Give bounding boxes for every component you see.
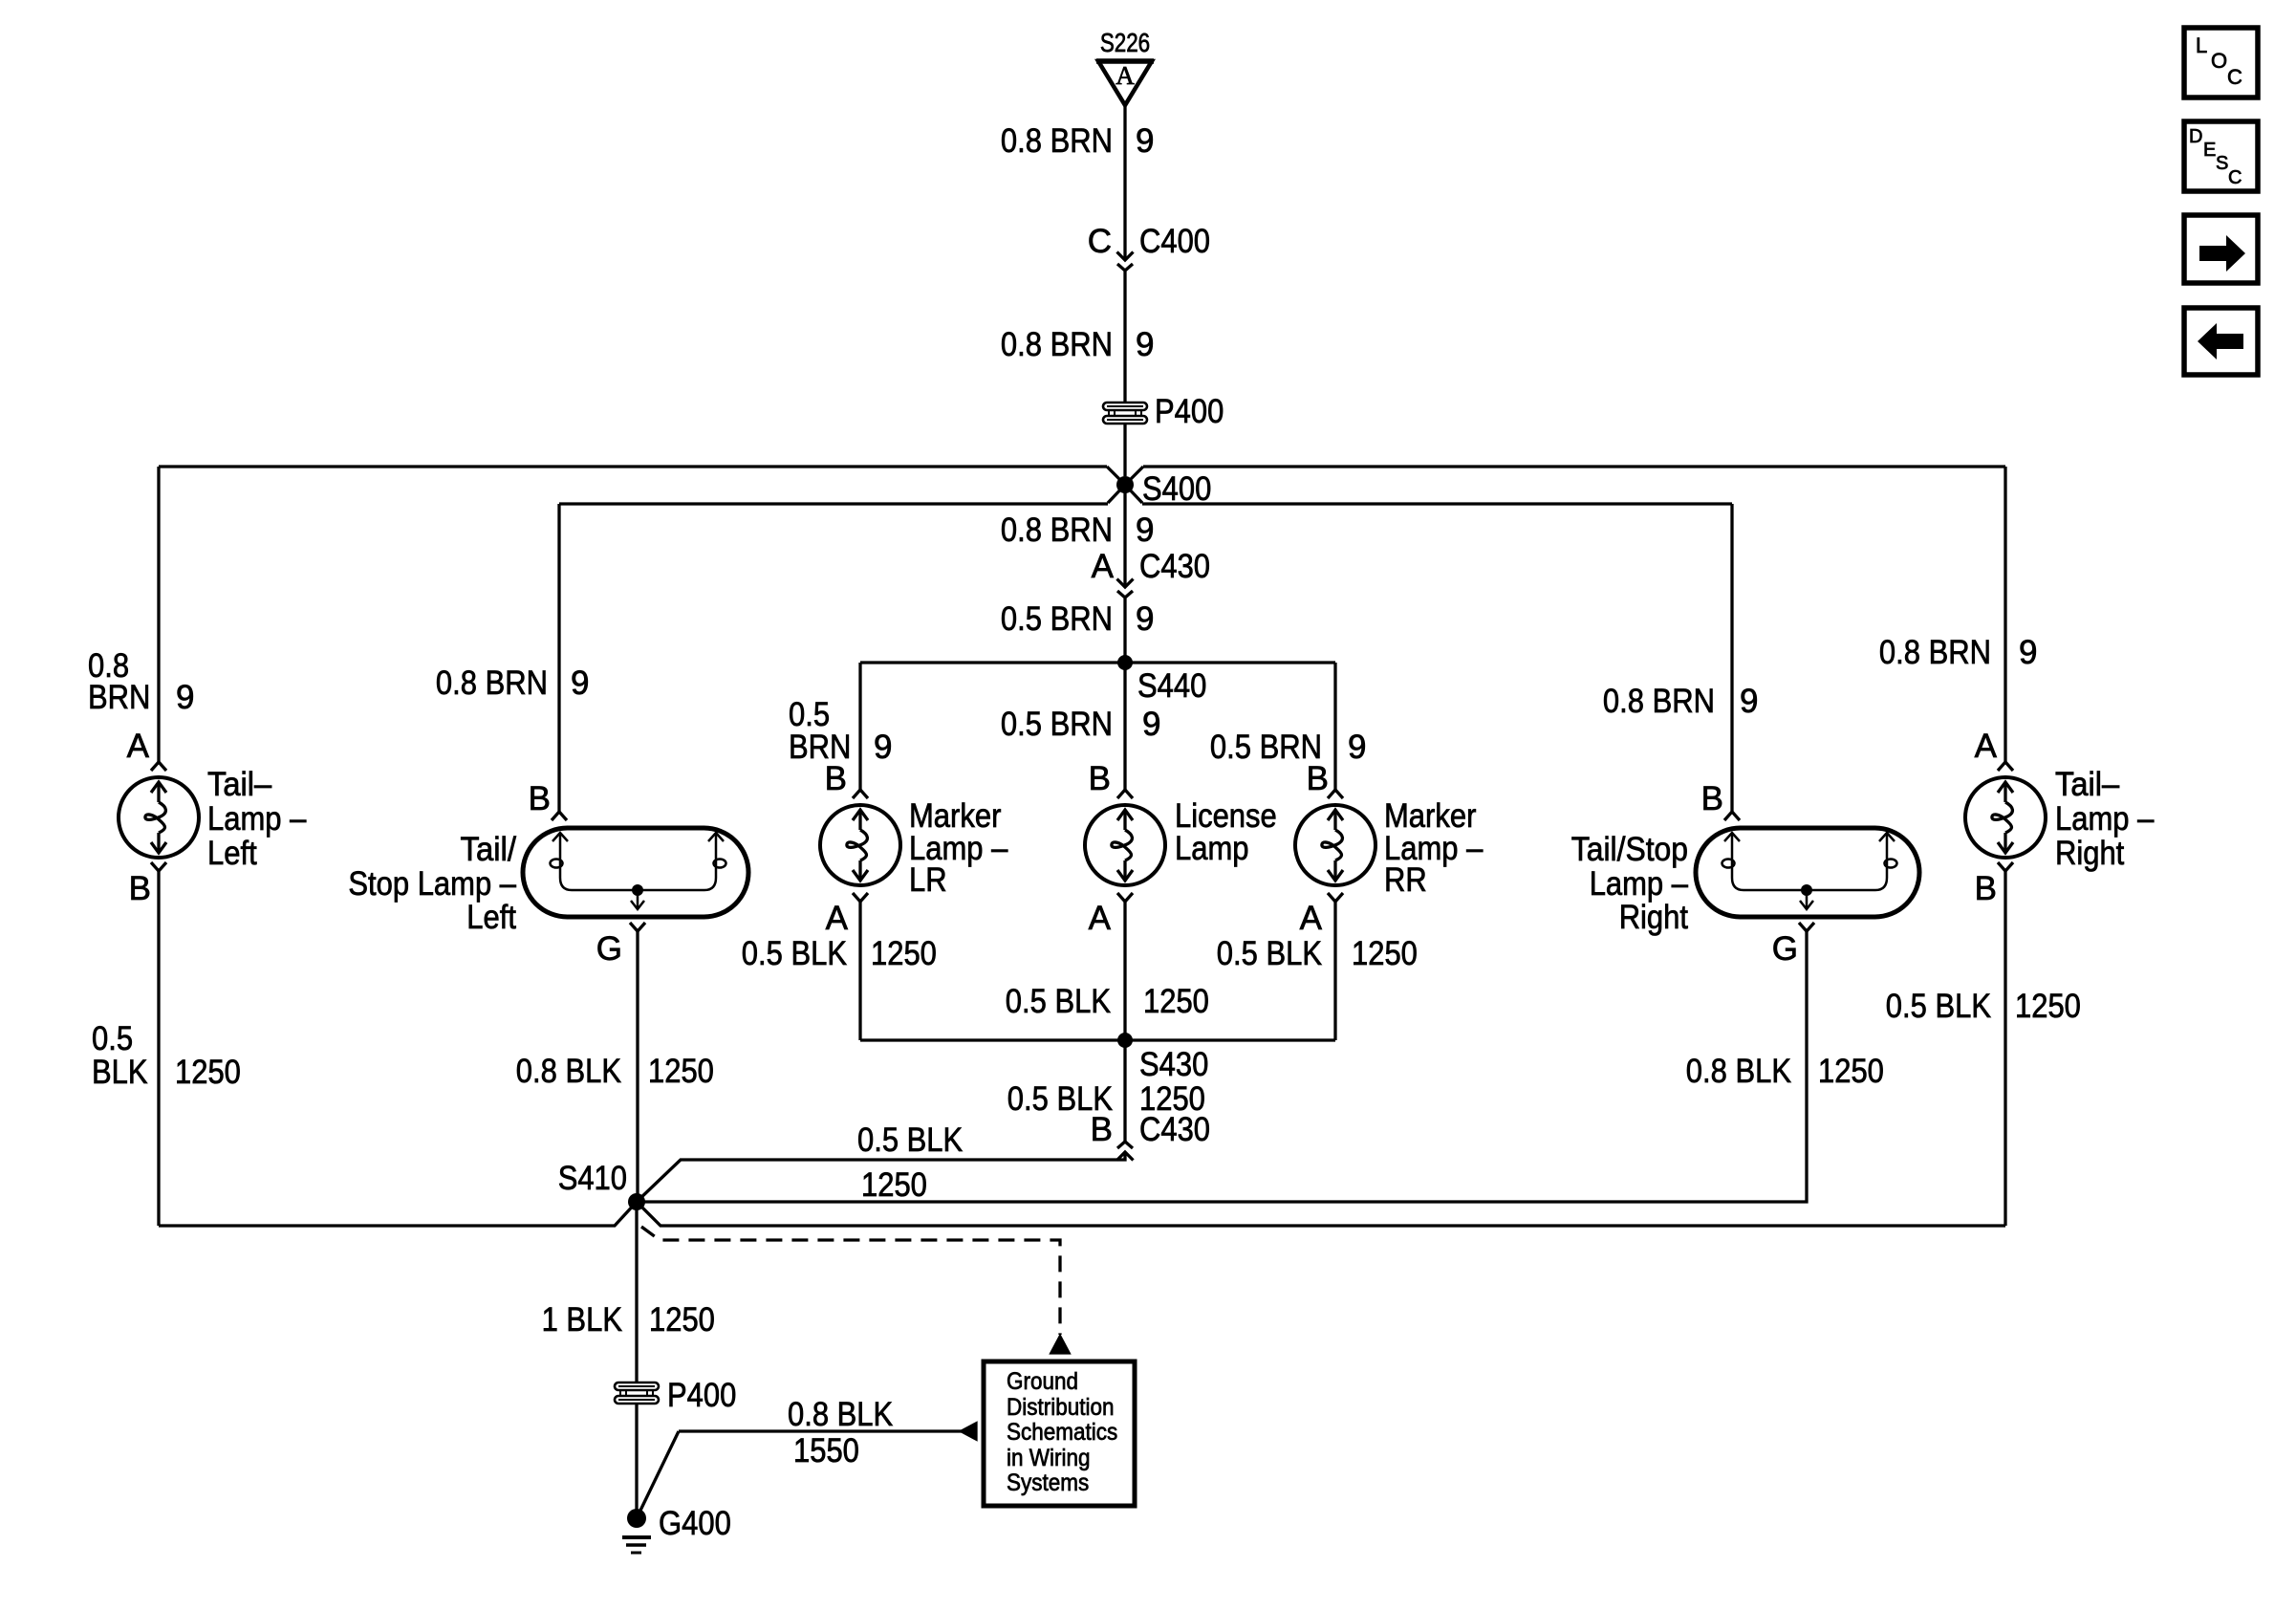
svg-text:9: 9 [571, 664, 589, 702]
svg-text:D: D [2189, 126, 2202, 147]
svg-text:0.8 BLK: 0.8 BLK [1686, 1053, 1791, 1090]
ground G400 [627, 1509, 646, 1528]
svg-text:1250: 1250 [1818, 1053, 1884, 1090]
wire 0.8 BRN 9 from S400 to C430 pin A [1123, 485, 1126, 587]
wire 0.5 BRN 9 drop to marker RR [1333, 663, 1336, 790]
svg-text:C: C [2228, 167, 2242, 188]
svg-text:P400: P400 [667, 1377, 736, 1414]
wire second rail S400 to left tail/stop lamp [559, 502, 1108, 505]
svg-text:RR: RR [1384, 861, 1427, 899]
svg-text:C: C [1088, 223, 1112, 260]
svg-text:E: E [2203, 140, 2216, 161]
svg-text:G: G [1772, 930, 1798, 968]
wire 0.8 BLK 1250 from G to S410 [636, 931, 639, 1202]
svg-text:B: B [825, 760, 847, 797]
svg-text:B: B [1091, 1111, 1113, 1148]
svg-text:B: B [1089, 760, 1111, 797]
svg-text:0.8 BRN: 0.8 BRN [1001, 512, 1113, 549]
wire 0.8 BRN 9 from C400 to P400 [1123, 272, 1126, 403]
svg-text:0.8 BRN: 0.8 BRN [1001, 326, 1113, 363]
svg-text:L: L [2196, 33, 2207, 57]
wire 1 BLK 1250 from S410 to P400 [635, 1202, 638, 1382]
wire 0.5 BLK 1250 license lamp to S430 [1123, 902, 1126, 1040]
svg-text:9: 9 [1136, 600, 1154, 638]
svg-text:0.5 BRN: 0.5 BRN [1001, 706, 1113, 743]
lamp License Lamp [1085, 805, 1165, 885]
svg-text:0.8 BRN: 0.8 BRN [1879, 634, 1991, 671]
splice S400 [1116, 476, 1134, 493]
wire P400 to S400 [1123, 424, 1126, 476]
svg-text:C430: C430 [1139, 548, 1210, 585]
svg-text:B: B [1701, 780, 1723, 817]
svg-text:1250: 1250 [2015, 988, 2081, 1025]
svg-text:Ground: Ground [1007, 1368, 1078, 1395]
svg-text:1250: 1250 [175, 1054, 241, 1091]
wire 0.8 BRN 9 left drop [157, 467, 160, 762]
svg-text:B: B [1307, 760, 1329, 797]
svg-text:0.5 BRN: 0.5 BRN [1210, 729, 1322, 766]
svg-text:Lamp –: Lamp – [2055, 800, 2155, 838]
lamp Tail/Stop Lamp Right [1696, 828, 1919, 917]
lamp Tail Lamp Left [119, 777, 199, 858]
svg-text:A: A [1300, 900, 1323, 937]
svg-text:0.8 BLK: 0.8 BLK [788, 1396, 893, 1433]
svg-text:Distribution: Distribution [1007, 1394, 1115, 1421]
svg-text:Schematics: Schematics [1007, 1419, 1117, 1446]
lamp Marker Lamp LR [820, 805, 900, 885]
svg-text:9: 9 [1136, 512, 1154, 549]
wire top rail S400 to left tail lamp [159, 465, 1107, 468]
wire 0.5 BLK 1250 right drop [2004, 871, 2006, 1226]
svg-text:in Wiring: in Wiring [1007, 1445, 1091, 1471]
svg-text:BLK: BLK [92, 1054, 148, 1091]
svg-text:Right: Right [2055, 835, 2125, 872]
wire 0.5 BLK 1250 left drop [157, 871, 160, 1226]
svg-text:0.8 BLK: 0.8 BLK [516, 1053, 621, 1090]
wire 0.5 BRN 9 drop to marker LR [858, 663, 861, 790]
svg-text:1250: 1250 [649, 1301, 715, 1339]
svg-text:9: 9 [1142, 706, 1160, 743]
svg-text:G: G [596, 930, 622, 968]
svg-text:Left: Left [466, 899, 516, 936]
svg-text:9: 9 [1136, 326, 1154, 363]
svg-text:9: 9 [1348, 729, 1366, 766]
button previous (left arrow) [2184, 308, 2258, 375]
splice S410 [628, 1193, 645, 1210]
svg-text:0.5 BLK: 0.5 BLK [742, 935, 847, 972]
svg-text:A: A [1116, 61, 1135, 90]
svg-text:9: 9 [2019, 634, 2037, 671]
svg-text:BRN: BRN [88, 679, 150, 716]
svg-text:Lamp –: Lamp – [1590, 865, 1689, 903]
wire 0.5 BLK 1250 from S430 to C430 pin B [1123, 1040, 1126, 1142]
svg-text:Tail/Stop: Tail/Stop [1571, 831, 1688, 868]
splice S430 [1117, 1033, 1133, 1048]
svg-text:1 BLK: 1 BLK [542, 1301, 622, 1339]
svg-text:Systems: Systems [1007, 1469, 1089, 1496]
svg-text:1550: 1550 [793, 1432, 859, 1469]
wire second rail S400 to right tail/stop lamp [1142, 502, 1732, 505]
svg-text:G400: G400 [659, 1505, 731, 1542]
svg-text:0.5 BLK: 0.5 BLK [1886, 988, 1991, 1025]
svg-text:9: 9 [176, 679, 194, 716]
svg-text:S: S [2216, 153, 2228, 174]
wire lower-left rail to S410 [159, 1202, 637, 1226]
svg-text:B: B [129, 870, 151, 907]
svg-text:Tail/: Tail/ [461, 831, 517, 868]
reference box Ground Distribution Schematics in Wiring Systems [984, 1361, 1135, 1506]
grommet P400 (upper) [1103, 403, 1147, 410]
wire S440 rail [860, 661, 1335, 664]
svg-text:9: 9 [1740, 683, 1758, 720]
splice S440 [1117, 655, 1133, 670]
svg-text:0.8 BRN: 0.8 BRN [1001, 122, 1113, 160]
button DESC [2184, 121, 2258, 191]
svg-text:0.5 BRN: 0.5 BRN [1001, 600, 1113, 638]
svg-text:O: O [2211, 49, 2227, 73]
wire top rail S400 to right tail lamp [1143, 465, 2005, 468]
svg-text:A: A [1089, 900, 1112, 937]
lamp Marker Lamp RR [1295, 805, 1375, 885]
wire 0.8 BRN 9 drop to tail/stop right [1730, 504, 1733, 812]
wire 0.5 BRN 9 from C430 to S440 [1123, 599, 1126, 663]
svg-text:9: 9 [1136, 122, 1154, 160]
lamp Tail/Stop Lamp Left [523, 828, 748, 917]
svg-text:S430: S430 [1139, 1046, 1208, 1083]
wire 0.5 BLK 1250 below marker LR [858, 902, 861, 1040]
svg-text:1250: 1250 [1352, 935, 1418, 972]
svg-text:S410: S410 [558, 1160, 627, 1197]
svg-text:0.5 BLK: 0.5 BLK [857, 1121, 963, 1159]
button LOC [2184, 28, 2258, 98]
svg-text:S440: S440 [1137, 667, 1206, 705]
svg-text:Lamp –: Lamp – [207, 800, 307, 838]
svg-text:Tail–: Tail– [2055, 766, 2120, 803]
wire 0.5 BRN 9 S440 to license lamp [1123, 663, 1126, 790]
wire 0.8 BRN 9 drop to tail/stop left [557, 504, 560, 812]
wire 0.8 BLK 1550 from G400 to ground schematics box [637, 1431, 679, 1518]
svg-text:P400: P400 [1155, 393, 1224, 430]
svg-text:0.5 BLK: 0.5 BLK [1006, 983, 1111, 1020]
dashed reference wire from S410 to ground schematic [641, 1227, 1060, 1335]
svg-text:0.5 BLK: 0.5 BLK [1217, 935, 1322, 972]
svg-text:C: C [2227, 65, 2242, 89]
svg-text:Left: Left [207, 835, 257, 872]
wire lower-right rail to S410 [637, 1202, 2005, 1226]
svg-text:S226: S226 [1100, 28, 1150, 57]
svg-text:1250: 1250 [1143, 983, 1209, 1020]
wire 0.8 BRN 9 right drop [2004, 467, 2006, 762]
svg-text:Stop Lamp –: Stop Lamp – [348, 865, 516, 903]
svg-text:1250: 1250 [648, 1053, 714, 1090]
svg-text:S400: S400 [1142, 470, 1211, 508]
svg-text:B: B [1975, 870, 1997, 907]
svg-text:B: B [529, 780, 551, 817]
wire C430 pin B down to S410 rail [637, 1152, 1125, 1202]
wire S430 rail [860, 1038, 1335, 1041]
svg-text:A: A [826, 900, 849, 937]
svg-text:C430: C430 [1139, 1111, 1210, 1148]
svg-text:A: A [1092, 548, 1115, 585]
svg-text:0.5: 0.5 [92, 1020, 133, 1057]
wire P400 to G400 [635, 1404, 638, 1518]
svg-text:1250: 1250 [871, 935, 937, 972]
svg-text:Lamp: Lamp [1175, 830, 1249, 867]
svg-text:A: A [1975, 728, 1998, 765]
svg-text:0.8 BRN: 0.8 BRN [436, 664, 548, 702]
button next (right arrow) [2184, 215, 2258, 283]
wire 0.8 BRN 9 from S226 to C400 [1123, 105, 1126, 260]
wire 0.5 BLK 1250 below marker RR [1333, 902, 1336, 1040]
svg-text:9: 9 [874, 729, 892, 766]
wire 0.8 BLK 1250 from right G to S410 [637, 931, 1807, 1202]
svg-text:Right: Right [1619, 899, 1689, 936]
svg-text:Tail–: Tail– [207, 766, 272, 803]
svg-text:A: A [127, 728, 150, 765]
svg-text:LR: LR [909, 861, 947, 899]
svg-text:C400: C400 [1139, 223, 1210, 260]
svg-text:0.8 BRN: 0.8 BRN [1603, 683, 1715, 720]
svg-text:1250: 1250 [861, 1166, 927, 1204]
lamp Tail Lamp Right [1965, 777, 2046, 858]
grommet P400 (lower) [615, 1382, 659, 1390]
